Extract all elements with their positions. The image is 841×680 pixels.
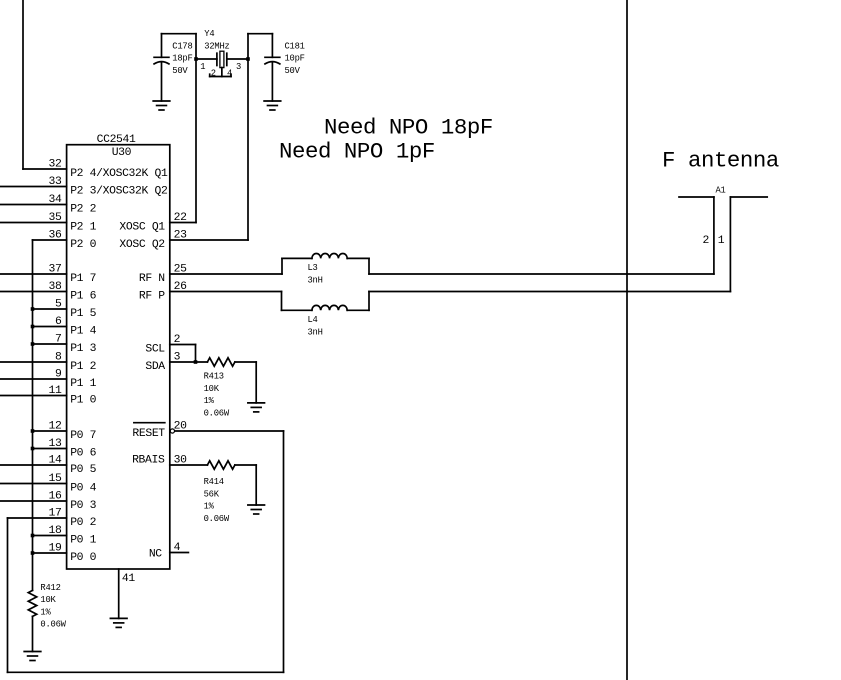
- svg-text:1%: 1%: [204, 396, 215, 406]
- svg-text:P0 3: P0 3: [70, 500, 96, 512]
- svg-text:23: 23: [174, 230, 187, 242]
- svg-text:3nH: 3nH: [308, 327, 323, 337]
- svg-text:10K: 10K: [40, 595, 56, 605]
- svg-text:RESET: RESET: [132, 428, 165, 440]
- svg-text:P2 0: P2 0: [70, 239, 96, 251]
- svg-text:P1 2: P1 2: [70, 361, 96, 373]
- svg-text:R412: R412: [40, 583, 60, 593]
- svg-text:F antenna: F antenna: [662, 148, 779, 174]
- svg-text:35: 35: [49, 212, 62, 224]
- svg-text:16: 16: [49, 491, 62, 503]
- svg-text:32: 32: [49, 159, 62, 171]
- svg-text:RBAIS: RBAIS: [132, 455, 165, 467]
- svg-text:50V: 50V: [172, 66, 188, 76]
- svg-text:0.06W: 0.06W: [40, 620, 66, 630]
- svg-text:P1 5: P1 5: [70, 308, 96, 320]
- svg-text:Y4: Y4: [204, 29, 214, 39]
- svg-text:3nH: 3nH: [308, 275, 323, 285]
- svg-text:22: 22: [174, 212, 187, 224]
- svg-text:P0 1: P0 1: [70, 535, 96, 547]
- svg-text:50V: 50V: [285, 66, 301, 76]
- svg-text:L4: L4: [308, 315, 318, 325]
- svg-text:1%: 1%: [204, 502, 215, 512]
- svg-text:R414: R414: [204, 477, 224, 487]
- svg-text:34: 34: [49, 194, 62, 206]
- svg-text:XOSC Q1: XOSC Q1: [119, 222, 165, 234]
- svg-text:5: 5: [55, 299, 62, 311]
- svg-text:P0 2: P0 2: [70, 517, 96, 529]
- svg-text:38: 38: [49, 281, 62, 293]
- svg-text:41: 41: [122, 573, 135, 585]
- svg-text:Need NPO 1pF: Need NPO 1pF: [279, 139, 435, 165]
- svg-text:0.06W: 0.06W: [204, 409, 230, 419]
- svg-text:2: 2: [174, 334, 181, 346]
- svg-text:SDA: SDA: [145, 361, 165, 373]
- svg-text:19: 19: [49, 543, 62, 555]
- svg-text:P1 6: P1 6: [70, 291, 96, 303]
- svg-text:25: 25: [174, 264, 187, 276]
- svg-text:A1: A1: [716, 186, 726, 196]
- svg-text:2: 2: [703, 235, 710, 247]
- svg-text:RF P: RF P: [139, 291, 165, 303]
- svg-text:P1 1: P1 1: [70, 378, 96, 390]
- svg-text:17: 17: [49, 508, 62, 520]
- svg-text:9: 9: [55, 369, 62, 381]
- svg-text:L3: L3: [308, 263, 318, 273]
- svg-text:P1 4: P1 4: [70, 326, 96, 338]
- svg-text:C181: C181: [285, 41, 305, 51]
- svg-text:P0 0: P0 0: [70, 552, 96, 564]
- svg-text:30: 30: [174, 455, 187, 467]
- svg-text:6: 6: [55, 316, 62, 328]
- svg-text:15: 15: [49, 473, 62, 485]
- svg-text:11: 11: [49, 385, 62, 397]
- svg-text:56K: 56K: [204, 489, 220, 499]
- svg-text:P0 4: P0 4: [70, 483, 96, 495]
- svg-text:P2 4/XOSC32K Q1: P2 4/XOSC32K Q1: [70, 168, 168, 180]
- svg-text:4: 4: [227, 69, 232, 79]
- svg-text:3: 3: [174, 352, 181, 364]
- svg-text:P1 0: P1 0: [70, 395, 96, 407]
- svg-text:37: 37: [49, 264, 62, 276]
- svg-text:13: 13: [49, 438, 62, 450]
- svg-text:26: 26: [174, 281, 187, 293]
- svg-text:XOSC Q2: XOSC Q2: [119, 239, 165, 251]
- svg-text:2: 2: [211, 69, 216, 79]
- svg-text:1%: 1%: [40, 607, 51, 617]
- svg-text:32MHz: 32MHz: [204, 41, 229, 51]
- svg-text:20: 20: [174, 421, 187, 433]
- svg-text:P0 7: P0 7: [70, 430, 96, 442]
- svg-text:18pF: 18pF: [172, 54, 192, 64]
- svg-text:P2 1: P2 1: [70, 222, 96, 234]
- svg-text:C178: C178: [172, 41, 192, 51]
- svg-text:P1 7: P1 7: [70, 273, 96, 285]
- svg-text:CC2541: CC2541: [97, 134, 136, 146]
- svg-text:P0 5: P0 5: [70, 464, 96, 476]
- svg-text:10K: 10K: [204, 384, 220, 394]
- svg-text:10pF: 10pF: [285, 54, 305, 64]
- svg-text:33: 33: [49, 176, 62, 188]
- svg-text:18: 18: [49, 525, 62, 537]
- svg-text:RF N: RF N: [139, 273, 165, 285]
- svg-text:P0 6: P0 6: [70, 448, 96, 460]
- svg-text:NC: NC: [149, 549, 162, 561]
- svg-text:36: 36: [49, 230, 62, 242]
- svg-text:P2 3/XOSC32K Q2: P2 3/XOSC32K Q2: [70, 186, 168, 198]
- svg-text:12: 12: [49, 421, 62, 433]
- svg-text:14: 14: [49, 455, 62, 467]
- svg-text:P1 3: P1 3: [70, 343, 96, 355]
- svg-text:1: 1: [200, 62, 205, 72]
- svg-text:7: 7: [55, 334, 62, 346]
- svg-text:8: 8: [55, 352, 62, 364]
- svg-text:4: 4: [174, 542, 181, 554]
- svg-text:P2 2: P2 2: [70, 204, 96, 216]
- svg-text:SCL: SCL: [145, 344, 165, 356]
- svg-text:3: 3: [236, 62, 241, 72]
- svg-text:Need NPO 18pF: Need NPO 18pF: [324, 115, 493, 141]
- svg-text:0.06W: 0.06W: [204, 514, 230, 524]
- svg-text:R413: R413: [204, 371, 224, 381]
- svg-text:1: 1: [718, 235, 725, 247]
- svg-text:U30: U30: [112, 147, 132, 159]
